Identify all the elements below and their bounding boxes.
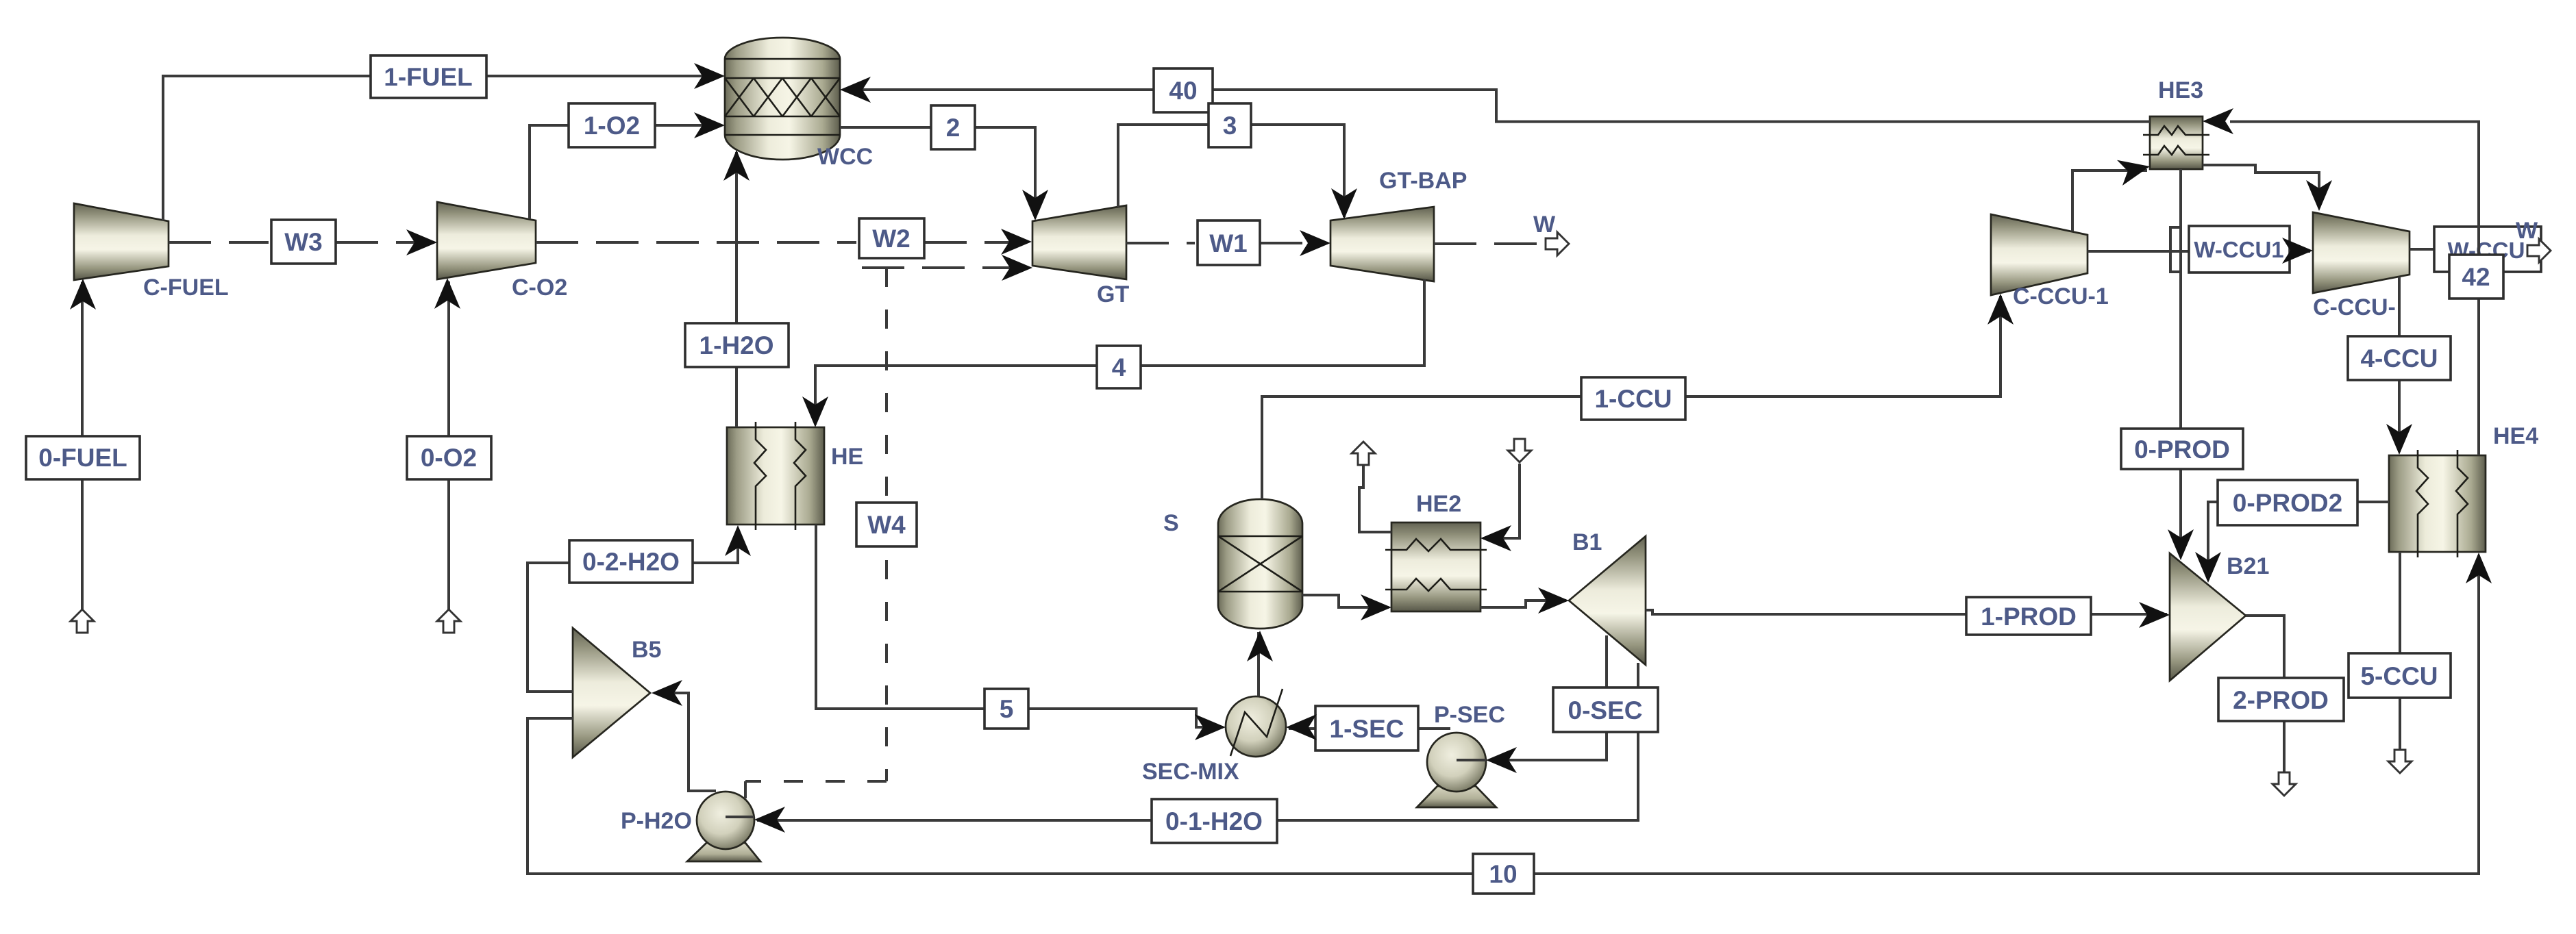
wire stream 40 — [844, 90, 2150, 122]
arrow into HE bottom (0-2-H2O) — [725, 525, 751, 556]
svg-text:B1: B1 — [1572, 529, 1602, 555]
wire stream 0-O2 feed — [447, 281, 450, 609]
node W1 — [1198, 220, 1260, 265]
wire P-H2O nozzle — [726, 816, 754, 818]
node 2-PROD — [2218, 678, 2344, 721]
compressor C-CCU-2 — [2313, 212, 2410, 293]
arrow into P-SEC right (0-SEC) — [1486, 747, 1517, 773]
wire stream 0-2-H2O — [528, 528, 738, 692]
exit arrow W-CCU — [2527, 239, 2551, 262]
arrow into GT-BAP top (3) — [1331, 188, 1357, 219]
svg-text:40: 40 — [1169, 77, 1197, 105]
arrow into C-FUEL bottom (0-FUEL) — [70, 279, 96, 310]
wire stream 1-CCU — [1262, 296, 2001, 499]
svg-text:HE4: HE4 — [2493, 423, 2538, 449]
arrow into HE2 left — [1361, 594, 1391, 620]
svg-text:3: 3 — [1223, 112, 1237, 140]
node 1-SEC — [1315, 706, 1418, 750]
svg-text:C-O2: C-O2 — [512, 275, 567, 301]
arrow into B21 top (0-PROD2) — [2195, 552, 2221, 583]
svg-text:W2: W2 — [872, 225, 911, 253]
svg-text:2: 2 — [946, 114, 961, 142]
wire S to HE2 — [1302, 595, 1389, 607]
splitter B5 — [573, 628, 650, 757]
wire HE2 hot out to exit — [1359, 465, 1391, 532]
node 2 — [931, 105, 975, 149]
splitter B1 — [1569, 536, 1646, 665]
wire stream 0-PROD2 — [2208, 502, 2389, 580]
svg-text:C-FUEL: C-FUEL — [143, 275, 229, 301]
node 5 — [984, 689, 1028, 729]
svg-text:1-SEC: 1-SEC — [1330, 715, 1404, 743]
node 3 — [1209, 103, 1251, 147]
arrow into GT top (2) — [1022, 190, 1048, 220]
svg-text:0-PROD2: 0-PROD2 — [2233, 489, 2342, 517]
node 0-2-H2O — [569, 540, 693, 583]
svg-text:5-CCU: 5-CCU — [2360, 662, 2438, 690]
svg-text:HE: HE — [831, 444, 863, 470]
node W4 — [856, 503, 917, 546]
svg-text:W: W — [2516, 218, 2538, 244]
separator S — [1218, 499, 1302, 629]
wire stream 0-SEC — [1489, 635, 1607, 760]
arrow into HE top (4) — [802, 396, 828, 427]
wire stream 10 — [528, 555, 2479, 874]
feed arrow HE2 top-right — [1508, 439, 1531, 462]
heat exchanger HE3 — [2143, 116, 2209, 169]
arrow into C-CCU-1 bottom (1-CCU) — [1987, 294, 2014, 325]
wire stream 1-O2 — [530, 125, 721, 219]
feed arrow 0-O2 — [437, 609, 460, 633]
svg-text:10: 10 — [1489, 860, 1517, 888]
svg-text:2-PROD: 2-PROD — [2233, 686, 2329, 714]
svg-text:C-CCU-1: C-CCU-1 — [2013, 283, 2109, 310]
svg-text:5: 5 — [1000, 695, 1014, 723]
wire work C-CCU-1 to C-CCU-2 — [2088, 250, 2310, 253]
exit arrow HE2 top-left — [1352, 442, 1375, 465]
arrow into C-CCU-2 left (W-CCU1) — [2282, 238, 2313, 264]
node W-CCU — [2434, 227, 2541, 272]
turbine GT — [1032, 205, 1126, 279]
arrow into SEC-MIX left (5) — [1195, 714, 1226, 740]
svg-text:1-O2: 1-O2 — [584, 112, 640, 140]
node 40 — [1154, 68, 1213, 112]
node 0-FUEL — [26, 436, 140, 479]
arrow into S bottom — [1247, 631, 1273, 661]
svg-text:4: 4 — [1112, 353, 1126, 381]
arrow into GT-BAP left (W1) — [1300, 230, 1330, 256]
arrow into C-CCU-2 top — [2306, 180, 2332, 211]
svg-text:P-SEC: P-SEC — [1434, 702, 1505, 728]
wire C-CCU-1 to HE3 — [2072, 171, 2147, 231]
arrow into HE4 top (4-CCU) — [2386, 424, 2412, 455]
svg-text:B21: B21 — [2227, 553, 2269, 579]
work stream W-CCU — [2410, 248, 2434, 251]
svg-text:B5: B5 — [632, 637, 661, 663]
svg-text:W3: W3 — [284, 228, 323, 256]
arrow into SEC-MIX right (1-SEC) — [1286, 714, 1317, 740]
svg-text:W-CCU1: W-CCU1 — [2194, 237, 2283, 262]
exit arrow 5-CCU — [2388, 750, 2412, 773]
work stream W1 — [1126, 242, 1195, 244]
wire stream 2-PROD — [2246, 616, 2284, 774]
svg-text:S: S — [1163, 510, 1179, 536]
wire HE2 to B1 — [1481, 601, 1566, 607]
svg-text:GT-BAP: GT-BAP — [1379, 168, 1467, 194]
svg-text:HE3: HE3 — [2158, 77, 2203, 103]
pump P-H2O — [687, 792, 760, 861]
node 10 — [1473, 854, 1534, 894]
arrow into HE3 right (42) — [2203, 108, 2233, 134]
node 1-H2O — [685, 323, 789, 367]
svg-text:1-H2O: 1-H2O — [699, 331, 774, 359]
feed arrow 0-FUEL — [71, 609, 94, 633]
node 1-O2 — [569, 103, 655, 147]
svg-text:0-1-H2O: 0-1-H2O — [1165, 807, 1263, 835]
svg-text:WCC: WCC — [817, 144, 873, 170]
node W2 — [859, 218, 924, 258]
turbine GT-BAP — [1330, 207, 1434, 281]
svg-text:0-SEC: 0-SEC — [1568, 696, 1643, 724]
svg-text:W: W — [1533, 212, 1556, 238]
wire stream 0-1-H2O — [757, 663, 1638, 820]
svg-text:HE2: HE2 — [1416, 491, 1461, 517]
arrow into P-H2O right (0-1-H2O) — [754, 807, 785, 833]
arrow into B5 apex — [652, 680, 682, 706]
node 1-CCU — [1581, 377, 1685, 420]
exit arrow 2-PROD — [2272, 772, 2296, 796]
svg-text:1-PROD: 1-PROD — [1981, 603, 2077, 631]
svg-text:42: 42 — [2462, 263, 2490, 291]
wire stream 5-CCU — [2399, 552, 2401, 751]
svg-text:1-FUEL: 1-FUEL — [384, 63, 473, 91]
node 0-PROD2 — [2218, 480, 2357, 525]
arrow into HE3 left — [2117, 153, 2153, 186]
wire P-SEC nozzle — [1457, 759, 1486, 761]
compressor C-O2 — [437, 202, 536, 279]
arrow into WCC right (40) — [840, 77, 871, 103]
heat exchanger HE2 — [1385, 522, 1487, 611]
svg-text:0-2-H2O: 0-2-H2O — [582, 548, 680, 576]
bracket on work line — [2170, 227, 2180, 272]
wire stream 42 vertical — [2230, 122, 2479, 455]
node 4-CCU — [2348, 336, 2451, 380]
node 1-PROD — [1966, 597, 2091, 635]
svg-text:W1: W1 — [1209, 229, 1248, 257]
wire stream 4-CCU — [2398, 277, 2401, 452]
wire P-H2O to B5 — [654, 693, 716, 791]
arrow into B21 top (0-PROD) — [2168, 529, 2194, 560]
node 0-SEC — [1553, 687, 1658, 732]
wire stream 2 — [840, 127, 1035, 218]
node 0-PROD — [2121, 429, 2243, 469]
node 1-FUEL — [371, 55, 486, 98]
node 4 — [1097, 346, 1141, 388]
exit arrow W after GT-BAP — [1546, 232, 1569, 255]
node 0-1-H2O — [1152, 799, 1277, 843]
arrow into WCC left (1-O2) — [694, 112, 725, 138]
wire stream 3 — [1118, 125, 1344, 217]
arrow into HE4 bottom (10) — [2466, 553, 2492, 583]
arrow into WCC bottom (1-H2O) — [723, 150, 750, 181]
wire stream 1-SEC — [1289, 727, 1450, 730]
arrow into GT left (W4) — [1002, 255, 1032, 281]
node 42 — [2449, 255, 2503, 299]
wire HE2 feed in — [1483, 464, 1520, 538]
arrow into B1 apex — [1538, 588, 1569, 614]
svg-text:1-CCU: 1-CCU — [1594, 385, 1672, 413]
arrow into HE2 right — [1481, 525, 1511, 551]
work stream W out of GT-BAP — [1434, 242, 1548, 245]
svg-text:W4: W4 — [867, 511, 906, 539]
arrow into B21 left (1-PROD) — [2139, 602, 2170, 628]
heater SEC-MIX — [1226, 689, 1286, 757]
work stream W3 — [169, 241, 269, 244]
svg-text:0-FUEL: 0-FUEL — [38, 444, 127, 472]
wire HE3 to C-CCU-2 — [2203, 165, 2319, 208]
svg-text:GT: GT — [1097, 281, 1129, 307]
arrow into WCC left (1-FUEL) — [694, 63, 725, 89]
wire stream 1-FUEL — [163, 76, 721, 220]
arrow into C-O2 left (W3) — [406, 229, 437, 255]
svg-text:SEC-MIX: SEC-MIX — [1142, 759, 1239, 785]
wire SEC-MIX to S — [1257, 632, 1260, 696]
node W-CCU1 — [2189, 226, 2290, 273]
wire stream 0-PROD — [2179, 169, 2182, 557]
wire stream 1-H2O — [735, 152, 738, 427]
wire stream 4 — [815, 279, 1424, 425]
node 0-O2 — [407, 436, 491, 479]
wire stream 1-PROD — [1646, 610, 2167, 614]
compressor C-CCU-1 — [1991, 214, 2088, 295]
wire stream 0-FUEL feed — [81, 282, 84, 609]
heat exchanger HE4 — [2389, 450, 2486, 557]
svg-text:0-PROD: 0-PROD — [2134, 436, 2230, 464]
work stream W2 — [536, 241, 856, 244]
reactor WCC — [725, 38, 840, 160]
wire stream 5 — [816, 525, 1223, 727]
svg-text:4-CCU: 4-CCU — [2360, 344, 2438, 373]
work stream W4 — [862, 266, 1030, 269]
svg-text:C-CCU-: C-CCU- — [2313, 294, 2396, 320]
node W3 — [271, 220, 336, 264]
heat exchanger HE — [727, 422, 824, 530]
node 5-CCU — [2349, 653, 2451, 698]
svg-text:P-H2O: P-H2O — [621, 808, 692, 834]
mixer B21 — [2170, 553, 2246, 681]
pump P-SEC — [1417, 733, 1496, 807]
arrow into C-O2 bottom (0-O2) — [434, 278, 460, 309]
arrow into GT left (W2) — [1001, 229, 1032, 255]
compressor C-FUEL — [74, 203, 169, 280]
svg-text:0-O2: 0-O2 — [421, 444, 477, 472]
